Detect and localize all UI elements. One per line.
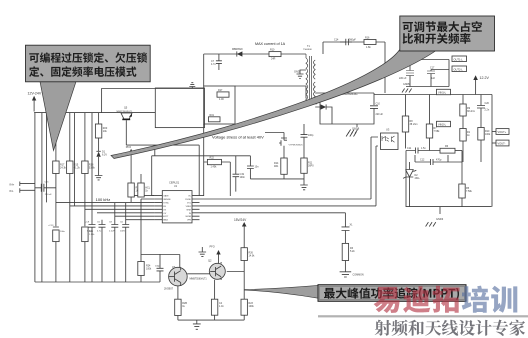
svg-text:R22: R22 bbox=[210, 156, 215, 159]
watermark logo pink bbox=[374, 286, 460, 313]
transistor Q2 bbox=[208, 259, 225, 281]
svg-text:1.40k: 1.40k bbox=[211, 166, 218, 169]
svg-text:431L: 431L bbox=[415, 177, 421, 180]
wire bus line 4b bbox=[74, 113, 76, 206]
node flag OUT2-L bbox=[452, 66, 467, 72]
capacitor C13 100u bbox=[48, 225, 66, 242]
capacitor C20 2.2n bbox=[477, 95, 490, 128]
wire R20 branch bbox=[98, 113, 100, 176]
resistor R9 38ohm bbox=[460, 95, 475, 129]
resistor R15 41.2k bbox=[67, 161, 81, 174]
svg-text:Voltage stress of at least 40V: Voltage stress of at least 40V bbox=[212, 135, 264, 140]
transformer T1 bbox=[303, 45, 315, 105]
opto-isolator U3 bbox=[381, 128, 399, 150]
svg-text:7.50k: 7.50k bbox=[466, 190, 473, 193]
resistor R17 1k bbox=[217, 89, 229, 101]
svg-text:100n: 100n bbox=[240, 176, 246, 179]
resistor RA bbox=[128, 183, 141, 202]
svg-text:2.2n: 2.2n bbox=[485, 109, 490, 112]
capacitor C12 470p bbox=[415, 159, 463, 166]
wire Q2 emitter right bbox=[227, 271, 244, 273]
transistor Q3 2N3907 bbox=[164, 266, 207, 291]
wire bus line 6 bbox=[91, 113, 93, 282]
svg-text:VOUT-: VOUT- bbox=[498, 142, 506, 146]
wire bus line 8 bbox=[125, 203, 127, 282]
resistor R10 bbox=[269, 48, 281, 60]
wire feedback 1 bbox=[200, 198, 372, 200]
resistor R26 14.0k bbox=[241, 248, 255, 300]
node flag VIN2-L bbox=[437, 121, 451, 126]
svg-text:C10: C10 bbox=[376, 103, 381, 106]
node flag VIN1-L bbox=[437, 89, 451, 94]
svg-text:7.58k: 7.58k bbox=[434, 130, 441, 133]
svg-text:100k: 100k bbox=[146, 268, 152, 271]
wire bus line 4 bbox=[69, 113, 71, 282]
op-amp U1 controller IC bbox=[155, 181, 200, 223]
capacitor C6 100V bbox=[120, 222, 129, 233]
ground bias bbox=[199, 247, 207, 256]
ground near gate loop bbox=[189, 83, 195, 89]
svg-text:24.3k: 24.3k bbox=[60, 167, 67, 170]
svg-text:OUT2-L: OUT2-L bbox=[454, 67, 464, 71]
capacitor C9 6.2uF bbox=[85, 222, 96, 233]
svg-text:100p: 100p bbox=[155, 266, 161, 268]
resistor R30 bbox=[211, 280, 224, 320]
svg-text:100k: 100k bbox=[249, 305, 255, 308]
capacitor C8 2.2u bbox=[109, 222, 118, 233]
capacitor C7 4.7u bbox=[211, 54, 222, 70]
wire gate drive bbox=[126, 145, 199, 196]
wire pin UV bbox=[70, 205, 155, 207]
wire pin FB bbox=[56, 201, 155, 203]
svg-text:41.2k: 41.2k bbox=[74, 167, 81, 170]
svg-text:IN-: IN- bbox=[10, 189, 14, 193]
svg-text:53.6k: 53.6k bbox=[89, 167, 96, 170]
resistor R19 bbox=[209, 114, 221, 122]
resistor R11 bbox=[301, 158, 314, 185]
svg-text:R19: R19 bbox=[210, 114, 215, 117]
capacitor C10 220uF bbox=[370, 103, 383, 117]
wire Q5 gate loop bbox=[102, 89, 204, 113]
wire snubber loop bbox=[323, 42, 385, 93]
resistor R14 bbox=[274, 150, 287, 179]
wire output rail bbox=[374, 95, 492, 207]
wire secondary loop bbox=[320, 93, 374, 124]
svg-text:100V: 100V bbox=[120, 231, 126, 233]
svg-text:38 ohm: 38 ohm bbox=[467, 110, 475, 113]
transistor Q4 VTPMOS bbox=[279, 133, 303, 151]
resistor R23 100k bbox=[241, 299, 254, 320]
svg-text:4R1: 4R1 bbox=[274, 165, 279, 168]
svg-text:2N3907: 2N3907 bbox=[164, 287, 174, 291]
wire bias column bbox=[140, 255, 142, 283]
resistor R10b 100k bbox=[478, 128, 491, 163]
svg-text:470p: 470p bbox=[436, 159, 442, 162]
svg-text:R17: R17 bbox=[218, 89, 223, 92]
wire secondary top bbox=[315, 92, 374, 94]
capacitor C13b 100p bbox=[301, 124, 314, 158]
svg-text:C17: C17 bbox=[430, 67, 435, 70]
svg-text:C14: C14 bbox=[334, 39, 339, 42]
wire bus line 3 bbox=[55, 113, 57, 282]
node PFO bbox=[126, 145, 134, 183]
svg-text:MMBT5560ALT1: MMBT5560ALT1 bbox=[190, 278, 208, 281]
svg-text:R10: R10 bbox=[270, 48, 275, 51]
svg-text:1.8k: 1.8k bbox=[366, 46, 371, 49]
diode D5 MBR0520L bbox=[334, 90, 358, 96]
resistor R28 1k bbox=[175, 286, 188, 320]
wire bias row bbox=[141, 255, 180, 268]
svg-text:VIN1-L: VIN1-L bbox=[438, 90, 447, 94]
wire opto left leads bbox=[371, 137, 378, 206]
wire bus line 7 bbox=[101, 220, 103, 282]
node PFO2 bbox=[210, 246, 221, 264]
svg-text:PGND: PGND bbox=[185, 199, 191, 201]
wire bottom rail bbox=[35, 281, 160, 283]
svg-text:GND: GND bbox=[294, 70, 300, 74]
svg-text:1.0n: 1.0n bbox=[219, 305, 224, 308]
svg-text:PFO: PFO bbox=[126, 145, 131, 149]
resistor R8 38ohm bbox=[402, 95, 417, 149]
svg-text:1.5n: 1.5n bbox=[421, 147, 426, 150]
capacitor C11 1.5n bbox=[406, 147, 440, 154]
svg-text:5.2k: 5.2k bbox=[350, 250, 355, 253]
svg-text:1.00: 1.00 bbox=[219, 98, 224, 101]
node IN- bbox=[10, 188, 35, 193]
callout box right bbox=[400, 16, 495, 51]
callout right text line 1 bbox=[403, 21, 482, 32]
resistor RB bbox=[138, 174, 151, 197]
node 12.2V bbox=[473, 75, 489, 94]
zener D1 6.2V bbox=[96, 151, 107, 157]
svg-text:2.2uF: 2.2uF bbox=[109, 231, 115, 233]
node flag VOUT+ bbox=[492, 129, 509, 135]
wire rail2 bbox=[204, 54, 306, 86]
svg-text:ATCT: ATCT bbox=[163, 215, 169, 218]
wire bottom rail 2 bbox=[178, 319, 244, 321]
wire pin BIAS bbox=[126, 219, 155, 221]
svg-text:100u: 100u bbox=[60, 231, 66, 233]
capacitor C18 10n bbox=[247, 156, 259, 179]
diode D6 MBR0520L lower bbox=[303, 104, 332, 125]
ground at opto bbox=[346, 132, 356, 136]
resistor R20 10k bbox=[95, 124, 107, 138]
svg-text:T560808: T560808 bbox=[303, 49, 312, 51]
wire bus line 2b bbox=[46, 113, 48, 203]
wire loop box B bbox=[204, 86, 235, 124]
ground COMMON bbox=[340, 272, 364, 277]
resistor R31 5.2k bbox=[342, 243, 355, 271]
svg-text:VINE: VINE bbox=[186, 209, 191, 211]
svg-text:220 uF: 220 uF bbox=[45, 194, 52, 196]
wire bus line 2 bbox=[41, 113, 43, 282]
svg-text:IN+: IN+ bbox=[10, 182, 15, 186]
svg-text:VIN2-L: VIN2-L bbox=[438, 122, 447, 126]
svg-text:GND5: GND5 bbox=[403, 83, 410, 86]
svg-text:6.2uF: 6.2uF bbox=[87, 231, 93, 233]
wire bus line 5 bbox=[84, 113, 86, 282]
watermark logo blue bbox=[462, 286, 518, 313]
svg-text:GND8: GND8 bbox=[352, 127, 360, 131]
wire pin ISENSE down bbox=[141, 199, 155, 255]
node IN+ bbox=[10, 182, 35, 187]
svg-text:Q2: Q2 bbox=[208, 259, 212, 263]
wire loop box A bbox=[155, 88, 204, 128]
capacitor C19 100n bbox=[233, 156, 246, 192]
resistor R17b bbox=[53, 161, 67, 174]
wire PFO node bbox=[152, 156, 251, 196]
diode D4 MBR0520 bbox=[232, 48, 243, 57]
svg-text:BIAS: BIAS bbox=[163, 219, 168, 222]
capacitor X1 bbox=[342, 224, 354, 244]
wire pin ATCT bbox=[115, 215, 155, 217]
ground under D1 bbox=[95, 176, 103, 180]
callout box MPPT bbox=[318, 285, 466, 302]
wire TL431 box bbox=[406, 151, 492, 207]
watermark slogan bbox=[375, 320, 525, 336]
resistor R6 bbox=[440, 145, 462, 153]
svg-text:VTPMOSNILS: VTPMOSNILS bbox=[289, 145, 304, 147]
wire top rail bbox=[34, 112, 155, 114]
wire boxB to IC bbox=[200, 124, 204, 196]
resistor R12 bbox=[460, 129, 471, 163]
wire box B to transformer bbox=[235, 86, 306, 98]
wire Q3 Q2 link bbox=[187, 273, 210, 275]
resistor R18 53.6k bbox=[82, 161, 96, 174]
svg-text:PFO: PFO bbox=[210, 246, 215, 249]
svg-text:OUT1-L: OUT1-L bbox=[454, 57, 464, 61]
svg-text:VREF: VREF bbox=[186, 206, 192, 208]
svg-text:C12: C12 bbox=[420, 159, 425, 162]
callout pointer MPPT bbox=[245, 285, 318, 298]
ground GND at T1 bbox=[294, 70, 306, 79]
svg-text:14.0k: 14.0k bbox=[249, 255, 256, 258]
callout pointer right beam bbox=[111, 50, 437, 159]
svg-text:VFB: VFB bbox=[187, 220, 192, 222]
svg-text:1uF: 1uF bbox=[431, 77, 436, 80]
svg-text:6.2V: 6.2V bbox=[102, 154, 107, 157]
node flag OUT1-L bbox=[452, 56, 467, 62]
svg-text:10n: 10n bbox=[255, 166, 260, 169]
svg-text:SYNC: SYNC bbox=[163, 202, 169, 204]
node 15V-24V bbox=[234, 218, 247, 248]
svg-text:COMMON: COMMON bbox=[353, 274, 364, 277]
wire feedback 2 bbox=[200, 205, 377, 207]
svg-text:C20: C20 bbox=[485, 102, 490, 105]
callout left text line 1 bbox=[29, 52, 147, 63]
svg-text:24R: 24R bbox=[271, 58, 276, 61]
svg-text:220 uF: 220 uF bbox=[376, 113, 384, 116]
svg-text:R16: R16 bbox=[365, 37, 370, 40]
wire out flags loop bbox=[406, 60, 449, 87]
capacitor C14 560p bbox=[334, 39, 356, 46]
resistor R7 7.58k bbox=[426, 95, 440, 151]
svg-text:4.7u: 4.7u bbox=[211, 63, 216, 66]
svg-text:+C13: +C13 bbox=[48, 225, 54, 227]
svg-text:1.96k: 1.96k bbox=[89, 234, 95, 236]
wire mid chain bbox=[250, 133, 304, 179]
shunt regulator D2 TL431 bbox=[403, 162, 420, 207]
svg-text:CERU21: CERU21 bbox=[169, 181, 180, 185]
wire pin SYNC bbox=[97, 212, 155, 214]
svg-text:38 ohm: 38 ohm bbox=[410, 123, 418, 126]
svg-text:100 kHz: 100 kHz bbox=[96, 197, 111, 202]
svg-text:MAX current of 1A: MAX current of 1A bbox=[255, 42, 286, 46]
capacitor C15 220uF bbox=[35, 182, 56, 197]
ground GND3 bbox=[426, 207, 444, 227]
svg-text:U3: U3 bbox=[386, 128, 390, 132]
svg-text:12V-24V: 12V-24V bbox=[28, 92, 42, 96]
svg-text:MBR0520: MBR0520 bbox=[232, 48, 243, 51]
svg-text:100k: 100k bbox=[485, 133, 491, 136]
capacitor C16 220uF bbox=[399, 67, 414, 81]
callout left text line 2 bbox=[29, 66, 136, 77]
svg-text:12.2V: 12.2V bbox=[480, 76, 490, 80]
svg-text:GND3: GND3 bbox=[436, 217, 444, 221]
resistor R22 1.40k bbox=[204, 156, 231, 196]
resistor R5 7.50k bbox=[459, 151, 473, 207]
transistor Q5 MMFT2N02ELT1 bbox=[117, 107, 134, 146]
capacitor C17 1uF bbox=[427, 67, 436, 80]
svg-text:100p: 100p bbox=[308, 134, 314, 137]
callout right text line 2 bbox=[403, 33, 471, 44]
ground GND5 bbox=[402, 83, 412, 93]
svg-text:MMFT2N02ELT1: MMFT2N02ELT1 bbox=[117, 111, 134, 113]
callout MPPT text bbox=[324, 288, 459, 301]
svg-text:560pF: 560pF bbox=[349, 39, 356, 42]
wire pin GATE to PFO bbox=[131, 195, 155, 197]
svg-text:30P0: 30P0 bbox=[308, 165, 314, 168]
resistor R16 1.8k bbox=[364, 37, 376, 49]
ground mid bbox=[300, 185, 308, 190]
watermark rule bbox=[318, 315, 528, 317]
svg-text:C11: C11 bbox=[407, 147, 412, 150]
ground bottom bbox=[193, 320, 201, 329]
svg-text:GATE: GATE bbox=[163, 195, 169, 198]
node flag VOUT- bbox=[492, 140, 509, 146]
svg-text:VOUT+: VOUT+ bbox=[498, 130, 507, 134]
callout box left bbox=[26, 45, 151, 82]
capacitor C5 bbox=[97, 222, 106, 233]
capacitor C22 100p bbox=[155, 254, 164, 282]
svg-text:15V/24V: 15V/24V bbox=[234, 218, 247, 222]
wire to common chain bbox=[200, 213, 346, 227]
svg-text:ISENSE: ISENSE bbox=[163, 199, 171, 201]
svg-text:220 uF: 220 uF bbox=[399, 77, 407, 80]
wire Q3 collector bbox=[179, 266, 182, 268]
wire VIN arrow bbox=[32, 96, 36, 112]
wire bus line 1 bbox=[34, 113, 36, 282]
ground GND8 bbox=[348, 124, 360, 134]
resistor R13 1.96k bbox=[82, 227, 96, 242]
wire pin OV bbox=[85, 208, 155, 210]
callout pointer left bbox=[40, 82, 76, 151]
svg-text:SGNB: SGNB bbox=[185, 216, 191, 218]
resistor R24 100k bbox=[138, 262, 152, 276]
